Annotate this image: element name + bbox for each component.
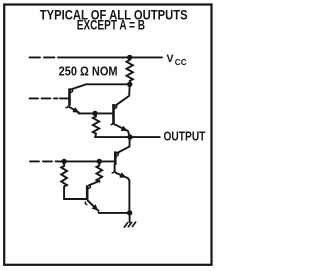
svg-text:CC: CC: [175, 58, 187, 67]
svg-text:250 Ω NOM: 250 Ω NOM: [59, 64, 118, 79]
svg-text:OUTPUT: OUTPUT: [164, 130, 206, 143]
svg-text:EXCEPT A = B: EXCEPT A = B: [77, 17, 146, 33]
svg-text:V: V: [167, 53, 174, 65]
